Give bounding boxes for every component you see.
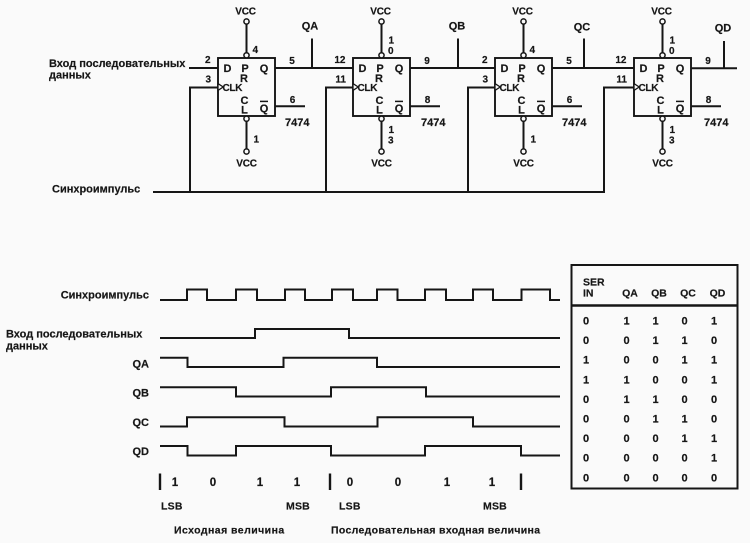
- svg-text:1: 1: [652, 394, 658, 406]
- svg-text:данных: данных: [6, 341, 49, 353]
- svg-text:1: 1: [681, 433, 687, 445]
- svg-text:QB: QB: [651, 288, 667, 300]
- waveform: QA trace: [160, 358, 560, 367]
- svg-text:1: 1: [489, 477, 496, 489]
- svg-text:0: 0: [681, 472, 687, 484]
- wire: serial data input to U1 pin 2: [189, 67, 218, 69]
- truth table row 1: 0 1 1 0 1: [583, 316, 717, 328]
- svg-text:0: 0: [583, 472, 589, 484]
- svg-text:1: 1: [681, 355, 687, 367]
- svg-text:QC: QC: [133, 417, 150, 429]
- svg-text:0: 0: [711, 394, 717, 406]
- svg-text:1: 1: [444, 477, 451, 489]
- svg-text:11: 11: [616, 75, 627, 86]
- svg-text:1: 1: [531, 135, 537, 146]
- svg-text:QC: QC: [680, 288, 696, 300]
- svg-text:0: 0: [583, 414, 589, 426]
- svg-text:0: 0: [583, 453, 589, 465]
- svg-text:L: L: [376, 105, 383, 117]
- svg-text:1: 1: [711, 374, 717, 386]
- wire: QB node stub: [457, 39, 459, 69]
- truth table row 4: 1 1 0 0 1: [583, 374, 717, 386]
- svg-text:12: 12: [334, 55, 346, 66]
- wire: clock branch to U4 CLK pin 11: [604, 88, 634, 193]
- wire: Q-bar stub of U2: [410, 105, 440, 107]
- flip-flop U4 (7474 D flip-flop) body: [634, 58, 691, 117]
- svg-text:QC: QC: [574, 22, 591, 34]
- svg-text:0: 0: [623, 355, 629, 367]
- svg-text:1: 1: [652, 335, 658, 347]
- svg-text:1: 1: [652, 414, 658, 426]
- VCC supply symbol, preset pin 4 of U3: [512, 7, 533, 58]
- waveform: QD trace: [160, 446, 560, 456]
- svg-text:LSB: LSB: [161, 501, 183, 513]
- waveform: clock trace: [160, 290, 560, 301]
- svg-text:11: 11: [335, 75, 346, 86]
- VCC supply symbol, preset pin 10 of U4: [651, 7, 672, 58]
- svg-text:1: 1: [294, 477, 301, 489]
- svg-text:1: 1: [623, 316, 629, 328]
- svg-text:0: 0: [711, 335, 717, 347]
- svg-text:Синхроимпульс: Синхроимпульс: [52, 184, 140, 196]
- svg-text:12: 12: [615, 55, 627, 66]
- svg-text:L: L: [657, 105, 664, 117]
- svg-text:D: D: [224, 63, 232, 75]
- svg-text:7474: 7474: [421, 117, 446, 129]
- wire: U2 Q (pin 9) to U3 D (pin 2), node QB: [410, 67, 495, 69]
- svg-text:1: 1: [389, 125, 395, 136]
- svg-text:0: 0: [623, 433, 629, 445]
- svg-text:1: 1: [711, 316, 717, 328]
- wire: U1 Q (pin 5) to U2 D (pin 12), node QA: [275, 67, 353, 69]
- svg-text:0: 0: [681, 453, 687, 465]
- svg-text:8: 8: [425, 95, 431, 106]
- svg-text:CLK: CLK: [223, 83, 244, 94]
- svg-text:данных: данных: [49, 70, 92, 82]
- svg-text:1: 1: [711, 355, 717, 367]
- svg-text:CLK: CLK: [358, 83, 379, 94]
- svg-text:Q: Q: [676, 103, 685, 115]
- svg-text:Q: Q: [260, 63, 269, 75]
- svg-text:5: 5: [566, 56, 572, 67]
- tick mark: word boundary 1: [159, 474, 161, 491]
- svg-text:0: 0: [623, 335, 629, 347]
- svg-text:LSB: LSB: [339, 501, 361, 513]
- svg-text:0: 0: [681, 374, 687, 386]
- svg-text:VCC: VCC: [236, 159, 257, 170]
- svg-text:0: 0: [347, 477, 353, 489]
- svg-text:6: 6: [290, 95, 296, 106]
- svg-text:Исходная величина: Исходная величина: [174, 525, 285, 537]
- truth table row 8: 0 0 0 0 1: [583, 453, 717, 465]
- svg-text:1: 1: [389, 36, 395, 47]
- svg-text:7474: 7474: [562, 117, 587, 129]
- svg-text:VCC: VCC: [513, 159, 534, 170]
- svg-text:1: 1: [254, 135, 260, 146]
- svg-text:QB: QB: [449, 21, 466, 33]
- svg-text:1: 1: [652, 316, 658, 328]
- svg-text:CLK: CLK: [500, 83, 521, 94]
- svg-text:3: 3: [669, 136, 675, 147]
- svg-text:QD: QD: [715, 23, 732, 35]
- VCC supply symbol, clear pin 13 of U4: [652, 116, 673, 169]
- svg-text:Q: Q: [395, 103, 404, 115]
- svg-text:0: 0: [652, 433, 658, 445]
- truth table row 5: 0 1 1 0 0: [583, 394, 717, 406]
- svg-text:Q: Q: [395, 63, 404, 75]
- svg-text:Синхроимпульс: Синхроимпульс: [61, 290, 149, 302]
- svg-text:5: 5: [289, 56, 295, 67]
- svg-text:3: 3: [205, 75, 211, 86]
- truth table header separator line: [572, 304, 738, 306]
- svg-text:2: 2: [482, 55, 488, 66]
- wire: clock branch to U3 CLK pin 3: [468, 88, 495, 193]
- label: serial data input (Vkhod posledovatelnykh dannykh): [49, 58, 186, 82]
- svg-text:Вход последовательных: Вход последовательных: [49, 58, 186, 70]
- label: serial data input waveform: [6, 329, 143, 353]
- svg-text:L: L: [241, 105, 248, 117]
- svg-text:CLK: CLK: [639, 83, 660, 94]
- svg-text:7474: 7474: [704, 117, 729, 129]
- tick mark: word boundary 3: [520, 474, 522, 491]
- svg-text:0: 0: [583, 335, 589, 347]
- svg-text:1: 1: [583, 374, 589, 386]
- svg-text:IN: IN: [583, 288, 594, 300]
- svg-text:MSB: MSB: [286, 501, 310, 513]
- svg-text:7474: 7474: [285, 117, 310, 129]
- pin number 10 (preset) of U4: [669, 36, 676, 58]
- truth table frame: [572, 265, 738, 489]
- svg-text:1: 1: [583, 355, 589, 367]
- svg-text:0: 0: [210, 477, 216, 489]
- VCC supply symbol, preset pin 4 of U1: [235, 7, 256, 58]
- truth table row 3: 1 0 0 1 1: [583, 355, 717, 367]
- waveform: QC trace: [160, 417, 560, 426]
- svg-text:D: D: [501, 63, 509, 75]
- svg-text:0: 0: [652, 355, 658, 367]
- svg-text:0: 0: [652, 453, 658, 465]
- svg-text:0: 0: [388, 46, 394, 57]
- svg-text:0: 0: [669, 46, 675, 57]
- pin number 13 (clear) of U4: [669, 125, 676, 147]
- svg-text:QD: QD: [133, 446, 150, 458]
- svg-text:VCC: VCC: [652, 159, 673, 170]
- svg-text:L: L: [518, 105, 525, 117]
- flip-flop U1 (7474 D flip-flop) body: [218, 58, 275, 117]
- truth table row 7: 0 0 0 1 1: [583, 433, 717, 445]
- svg-text:9: 9: [424, 56, 430, 67]
- svg-text:D: D: [359, 63, 367, 75]
- svg-text:1: 1: [681, 335, 687, 347]
- svg-text:1: 1: [711, 433, 717, 445]
- svg-text:VCC: VCC: [370, 7, 391, 18]
- wire: clock branch to U2 CLK pin 11: [326, 88, 353, 193]
- VCC supply symbol, preset pin 10 of U2: [370, 7, 391, 58]
- VCC supply symbol, clear pin 13 of U2: [371, 116, 392, 169]
- svg-text:8: 8: [706, 95, 712, 106]
- svg-text:Q: Q: [260, 103, 269, 115]
- svg-text:QA: QA: [133, 359, 150, 371]
- svg-text:0: 0: [395, 477, 401, 489]
- svg-text:6: 6: [567, 95, 573, 106]
- VCC supply symbol, clear pin 1 of U3: [513, 116, 534, 169]
- svg-text:1: 1: [623, 374, 629, 386]
- truth table row 9: 0 0 0 0 0: [583, 472, 717, 484]
- svg-text:1: 1: [681, 414, 687, 426]
- wire: Q-bar stub of U4: [691, 105, 721, 107]
- svg-text:1: 1: [670, 36, 676, 47]
- svg-text:D: D: [640, 63, 648, 75]
- svg-text:0: 0: [711, 414, 717, 426]
- wire: Q-bar stub of U3: [552, 105, 582, 107]
- svg-text:0: 0: [652, 374, 658, 386]
- svg-text:0: 0: [711, 472, 717, 484]
- wire: clock branch to U1 CLK pin 3: [190, 88, 218, 193]
- svg-text:9: 9: [705, 56, 711, 67]
- svg-text:QB: QB: [133, 388, 150, 400]
- flip-flop U3 (7474 D flip-flop) body: [495, 58, 552, 117]
- truth table header SER IN: [583, 277, 605, 300]
- wire: Q-bar stub of U1: [275, 105, 305, 107]
- svg-text:0: 0: [583, 316, 589, 328]
- svg-text:1: 1: [711, 453, 717, 465]
- svg-text:0: 0: [681, 316, 687, 328]
- svg-text:1: 1: [670, 125, 676, 136]
- svg-text:1: 1: [623, 394, 629, 406]
- svg-text:0: 0: [623, 472, 629, 484]
- svg-text:3: 3: [482, 75, 488, 86]
- svg-text:MSB: MSB: [483, 501, 507, 513]
- svg-text:0: 0: [623, 453, 629, 465]
- svg-text:2: 2: [205, 55, 211, 66]
- svg-text:0: 0: [583, 394, 589, 406]
- svg-text:VCC: VCC: [651, 7, 672, 18]
- tick mark: word boundary 2: [329, 474, 331, 491]
- svg-text:0: 0: [652, 472, 658, 484]
- svg-text:4: 4: [253, 45, 259, 56]
- svg-text:VCC: VCC: [512, 7, 533, 18]
- svg-text:QD: QD: [710, 288, 726, 300]
- flip-flop U2 (7474 D flip-flop) body: [353, 58, 410, 117]
- wire: U3 Q (pin 5) to U4 D (pin 12), node QC: [552, 67, 634, 69]
- svg-text:Q: Q: [676, 63, 685, 75]
- svg-text:QA: QA: [622, 288, 638, 300]
- waveform: serial data trace: [160, 329, 560, 338]
- svg-text:QA: QA: [302, 21, 319, 33]
- svg-text:Q: Q: [537, 103, 546, 115]
- wire: QC node stub: [583, 39, 585, 69]
- svg-text:Q: Q: [537, 63, 546, 75]
- truth table row 2: 0 0 1 1 0: [583, 335, 717, 347]
- svg-text:0: 0: [623, 414, 629, 426]
- pin number 10 (preset) of U2: [388, 36, 395, 58]
- svg-text:3: 3: [388, 136, 394, 147]
- svg-text:VCC: VCC: [371, 159, 392, 170]
- svg-text:1: 1: [257, 477, 264, 489]
- svg-text:VCC: VCC: [235, 7, 256, 18]
- svg-text:0: 0: [681, 394, 687, 406]
- svg-text:0: 0: [583, 433, 589, 445]
- wire: QA node stub: [311, 39, 313, 69]
- wire: U4 Q output (pin 9), node QD: [691, 67, 737, 69]
- wire: QD node stub: [723, 41, 725, 68]
- svg-text:Последовательная входная велич: Последовательная входная величина: [331, 525, 540, 537]
- wire: clock distribution line: [153, 191, 605, 193]
- truth table row 6: 0 0 1 1 0: [583, 414, 717, 426]
- svg-text:4: 4: [530, 45, 536, 56]
- svg-text:Вход последовательных: Вход последовательных: [6, 329, 143, 341]
- svg-text:1: 1: [172, 477, 179, 489]
- pin number 13 (clear) of U2: [388, 125, 395, 147]
- waveform: QB trace: [160, 387, 560, 396]
- VCC supply symbol, clear pin 1 of U1: [236, 116, 257, 169]
